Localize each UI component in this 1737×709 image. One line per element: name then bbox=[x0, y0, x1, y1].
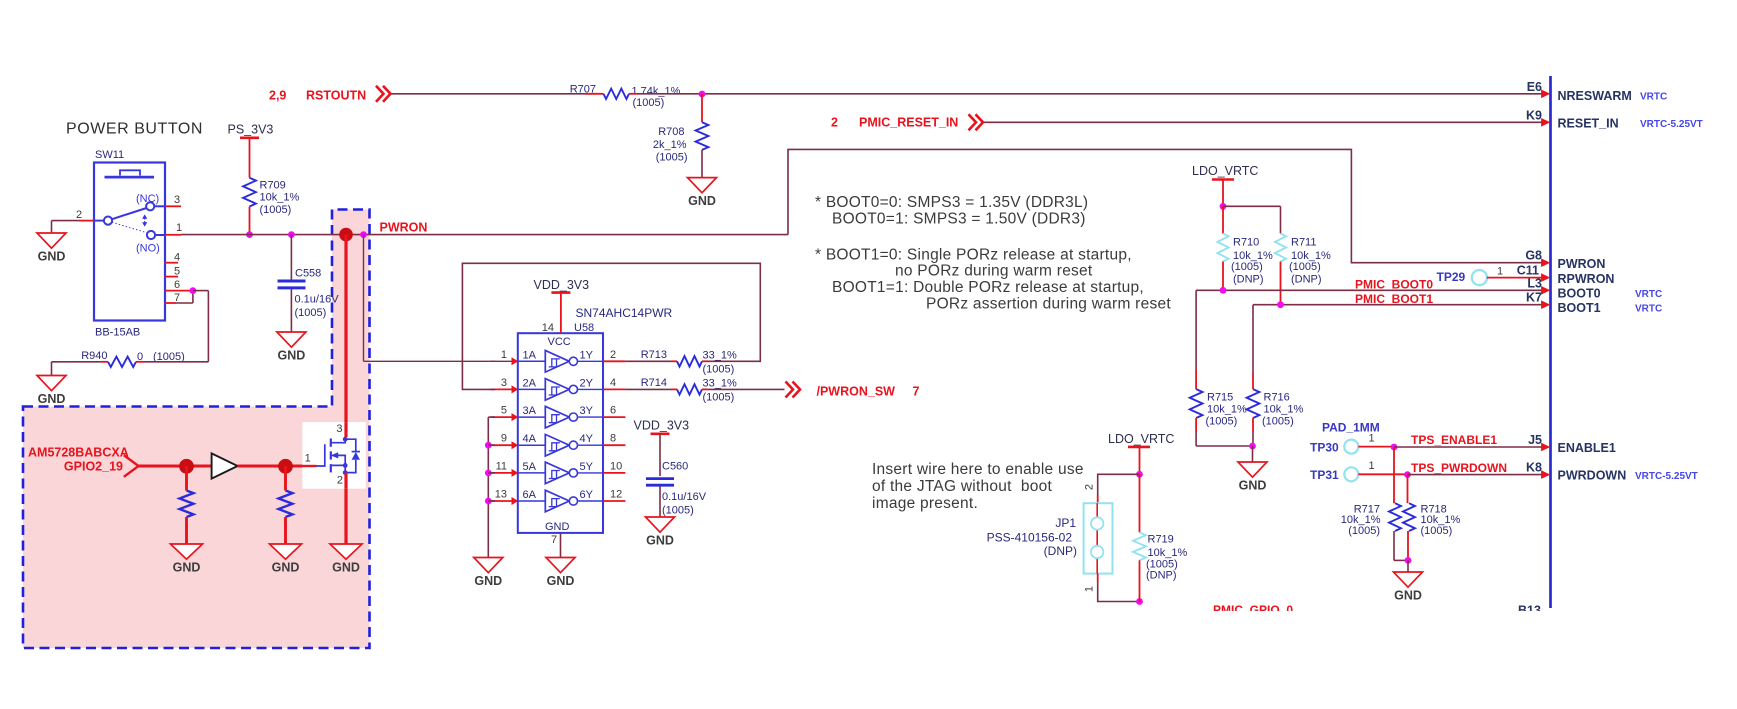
connector boundary line bbox=[1549, 76, 1552, 608]
svg-text:1: 1 bbox=[501, 349, 507, 361]
wire TP30 junction to R717 bbox=[1393, 447, 1395, 503]
resistor R717 bbox=[1341, 503, 1401, 537]
resistor R713 bbox=[641, 349, 737, 376]
svg-text:of the JTAG without boot: of the JTAG without boot bbox=[872, 478, 1052, 495]
highlight region (pink) bbox=[23, 210, 370, 649]
svg-text:VRTC-5.25VT: VRTC-5.25VT bbox=[1635, 471, 1698, 482]
node junction LDO/JP1 top bbox=[1136, 471, 1143, 478]
wire junction to R708 bbox=[701, 94, 703, 122]
svg-text:GND: GND bbox=[1239, 479, 1267, 493]
wire R718 to junction bbox=[1407, 531, 1409, 560]
node pin E6 NRESWARM bbox=[1527, 80, 1668, 103]
svg-text:R711: R711 bbox=[1291, 237, 1316, 249]
wire GPIO2_19 bbox=[139, 465, 213, 468]
ground below R715/R716 bbox=[1238, 462, 1267, 493]
svg-text:4: 4 bbox=[174, 252, 180, 264]
svg-text:1Y: 1Y bbox=[580, 349, 594, 361]
node junction LDO_VRTC bbox=[1220, 203, 1227, 210]
svg-text:33_1%: 33_1% bbox=[703, 378, 737, 390]
node junction R707/R708 bbox=[699, 91, 706, 98]
svg-text:1A: 1A bbox=[523, 349, 537, 361]
wire PWRON horizontal bbox=[181, 234, 788, 236]
wire PS_3V3 to R709 bbox=[249, 138, 251, 178]
svg-text:R715: R715 bbox=[1207, 392, 1233, 404]
svg-text:JP1: JP1 bbox=[1055, 516, 1076, 530]
svg-text:RPWRON: RPWRON bbox=[1558, 272, 1615, 286]
connector JP1 bbox=[987, 484, 1113, 592]
svg-text:GND: GND bbox=[38, 392, 66, 406]
svg-text:L3: L3 bbox=[1527, 276, 1542, 290]
power VDD_3V3 at U58 bbox=[534, 278, 590, 293]
svg-text:6Y: 6Y bbox=[580, 489, 594, 501]
wire PMIC_BOOT1 bbox=[1253, 304, 1542, 306]
wire PMIC_RESET_IN to RESET_IN bbox=[984, 121, 1542, 123]
U58 right pin stubs bbox=[603, 349, 625, 501]
svg-text:GND: GND bbox=[278, 349, 306, 363]
wire BOOT1 down to R716 bbox=[1252, 305, 1254, 389]
svg-text:U58: U58 bbox=[574, 322, 594, 334]
svg-text:GND: GND bbox=[38, 250, 66, 264]
svg-text:LDO_VRTC: LDO_VRTC bbox=[1192, 164, 1258, 178]
svg-text:11: 11 bbox=[496, 460, 507, 472]
svg-text:GND: GND bbox=[1394, 589, 1422, 603]
wire SW11 pin1 stub bbox=[165, 234, 181, 236]
wire junction to ground bbox=[1407, 560, 1409, 572]
svg-text:(NO): (NO) bbox=[136, 243, 160, 255]
svg-text:1: 1 bbox=[176, 222, 182, 234]
node PAD_1MM label bbox=[1322, 421, 1380, 435]
svg-text:TP30: TP30 bbox=[1310, 440, 1339, 454]
wire R715 to junction bbox=[1196, 418, 1252, 446]
svg-text:(1005): (1005) bbox=[1206, 416, 1238, 428]
wire R713 feedback loop bbox=[462, 263, 760, 389]
wire R717 to junction bbox=[1394, 531, 1408, 560]
svg-text:8: 8 bbox=[610, 433, 616, 445]
svg-text:(1005): (1005) bbox=[662, 505, 694, 517]
note insert wire bbox=[872, 461, 1084, 512]
wire SW11 pin4 stub bbox=[165, 262, 178, 264]
svg-text:4: 4 bbox=[610, 377, 616, 389]
ground below U58 pin7 bbox=[546, 558, 575, 589]
wire LDO_VRTC stub lower bbox=[1139, 447, 1141, 474]
svg-text:* BOOT0=0: SMPS3 = 1.35V (DDR3: * BOOT0=0: SMPS3 = 1.35V (DDR3L) bbox=[815, 194, 1088, 211]
svg-text:Insert wire here to enable use: Insert wire here to enable use bbox=[872, 461, 1084, 478]
svg-text:K8: K8 bbox=[1526, 461, 1542, 475]
svg-text:TPS_PWRDOWN: TPS_PWRDOWN bbox=[1411, 461, 1507, 475]
wire TPS_PWRDOWN bbox=[1408, 461, 1542, 475]
wire PWRON to C558 bbox=[290, 235, 292, 280]
wire BOOT0 down to R715 bbox=[1195, 290, 1197, 389]
svg-text:VRTC-5.25VT: VRTC-5.25VT bbox=[1640, 119, 1703, 130]
node /PWRON_SW off-page bbox=[786, 382, 920, 399]
resistor pulldown 2 bbox=[279, 491, 293, 518]
svg-text:E6: E6 bbox=[1527, 80, 1542, 94]
node big junction PWRON bbox=[339, 228, 353, 242]
svg-text:7: 7 bbox=[551, 534, 557, 546]
node junction 1A branch bbox=[360, 231, 367, 238]
wire R719 bottom bbox=[1139, 560, 1141, 601]
svg-text:GND: GND bbox=[173, 561, 201, 575]
svg-text:NRESWARM: NRESWARM bbox=[1558, 89, 1632, 103]
svg-text:14: 14 bbox=[542, 322, 554, 334]
resistor R708 bbox=[653, 122, 709, 163]
svg-text:10k_1%: 10k_1% bbox=[1207, 404, 1247, 416]
svg-text:1: 1 bbox=[305, 453, 311, 465]
wire C560 to ground bbox=[659, 486, 661, 517]
resistor R715 bbox=[1190, 389, 1247, 427]
wire SW11 pin7 stub bbox=[165, 291, 193, 303]
wire pin7 to ground bbox=[560, 533, 562, 558]
svg-text:3A: 3A bbox=[523, 405, 537, 417]
node junction R715/R716 gnd bbox=[1249, 443, 1256, 450]
svg-text:image present.: image present. bbox=[872, 495, 978, 512]
wire PWRON route to G8 bbox=[788, 149, 1542, 262]
svg-text:G8: G8 bbox=[1525, 249, 1542, 263]
resistor R711 (DNP) bbox=[1275, 234, 1331, 286]
svg-text:GND: GND bbox=[646, 534, 674, 548]
ground below R940 left bbox=[37, 376, 66, 407]
svg-text:12: 12 bbox=[610, 489, 622, 501]
svg-text:PMIC_RESET_IN: PMIC_RESET_IN bbox=[859, 116, 958, 130]
svg-text:1: 1 bbox=[1084, 586, 1096, 592]
wire SW11 pin5 stub bbox=[165, 276, 178, 278]
resistor pulldown 1 bbox=[180, 491, 194, 518]
svg-text:/PWRON_SW: /PWRON_SW bbox=[817, 385, 896, 399]
svg-text:SN74AHC14PWR: SN74AHC14PWR bbox=[576, 306, 673, 320]
svg-text:no PORz during warm reset: no PORz during warm reset bbox=[895, 263, 1093, 280]
svg-text:PWRON: PWRON bbox=[1558, 257, 1606, 271]
svg-text:SW11: SW11 bbox=[95, 149, 124, 161]
svg-text:1: 1 bbox=[1369, 433, 1375, 445]
resistor R716 bbox=[1247, 389, 1304, 427]
node pin K7 BOOT1 bbox=[1526, 291, 1662, 315]
svg-text:3Y: 3Y bbox=[580, 405, 594, 417]
wire pin2 to ground bbox=[52, 221, 80, 233]
node pin K8 PWRDOWN bbox=[1526, 461, 1698, 483]
svg-text:PWRDOWN: PWRDOWN bbox=[1558, 469, 1627, 483]
wire R714 to off-page bbox=[702, 388, 785, 390]
svg-text:(DNP): (DNP) bbox=[1044, 544, 1077, 558]
svg-text:1: 1 bbox=[1497, 266, 1503, 278]
svg-text:33_1%: 33_1% bbox=[703, 350, 737, 362]
wire to R710 bbox=[1222, 206, 1224, 233]
wire PWRON branch to 1A bbox=[364, 235, 496, 362]
svg-text:(1005): (1005) bbox=[1262, 416, 1294, 428]
node pin K9 RESET_IN bbox=[1526, 108, 1703, 130]
svg-text:RSTOUTN: RSTOUTN bbox=[306, 89, 366, 103]
node RSTOUTN off-page ref bbox=[269, 86, 391, 103]
node PMIC_RESET_IN off-page bbox=[831, 114, 983, 130]
svg-text:(1005): (1005) bbox=[703, 364, 735, 376]
resistor R719 (DNP) bbox=[1133, 532, 1187, 581]
svg-text:(1005): (1005) bbox=[260, 204, 292, 216]
wire R716 to junction bbox=[1252, 418, 1254, 446]
power PS_3V3 bbox=[228, 123, 274, 138]
svg-text:9: 9 bbox=[501, 433, 507, 445]
node junction R710/BOOT0 bbox=[1220, 287, 1227, 294]
svg-text:13: 13 bbox=[495, 489, 507, 501]
wire pulldown 2 gnd bbox=[284, 517, 287, 544]
node pin G8 PWRON bbox=[1525, 249, 1605, 271]
svg-text:PWRON: PWRON bbox=[380, 221, 428, 235]
capacitor C558 bbox=[278, 268, 340, 320]
ground below R708 bbox=[688, 178, 717, 209]
svg-text:VRTC: VRTC bbox=[1635, 304, 1662, 315]
svg-text:BOOT0=1: SMPS3 = 1.50V (DDR3): BOOT0=1: SMPS3 = 1.50V (DDR3) bbox=[832, 211, 1086, 228]
ground pulldown 1 bbox=[171, 544, 203, 575]
wire VDD_3V3 to C560 bbox=[659, 434, 661, 476]
node junction R717/R718 gnd bbox=[1405, 557, 1412, 564]
wire 1Y to R713 bbox=[625, 360, 677, 362]
buffer gate bbox=[212, 453, 238, 478]
resistor R707 bbox=[570, 84, 681, 110]
U58 left pin stubs bbox=[491, 349, 519, 505]
svg-text:0.1u/16V: 0.1u/16V bbox=[295, 294, 340, 306]
svg-text:7: 7 bbox=[174, 292, 180, 304]
power VDD_3V3 at C560 bbox=[634, 419, 690, 434]
wire R719 top bbox=[1139, 474, 1141, 532]
wire TP31 junction to R718 bbox=[1407, 475, 1409, 504]
testpoint TP30 bbox=[1310, 440, 1358, 455]
svg-text:LDO_VRTC: LDO_VRTC bbox=[1108, 432, 1174, 446]
svg-text:(1005): (1005) bbox=[295, 307, 327, 319]
svg-text:VDD_3V3: VDD_3V3 bbox=[534, 278, 590, 292]
svg-text:1: 1 bbox=[1369, 460, 1375, 472]
svg-text:J5: J5 bbox=[1528, 433, 1542, 447]
wire C558 to ground bbox=[290, 289, 292, 332]
svg-text:4Y: 4Y bbox=[580, 433, 594, 445]
svg-text:K9: K9 bbox=[1526, 108, 1542, 122]
svg-text:(DNP): (DNP) bbox=[1233, 274, 1264, 286]
svg-text:2,9: 2,9 bbox=[269, 89, 286, 103]
svg-text:BOOT1: BOOT1 bbox=[1558, 301, 1601, 315]
node junction pin11 bbox=[485, 470, 492, 477]
wire R707 to NRESWARM bbox=[629, 93, 1542, 95]
svg-text:C560: C560 bbox=[662, 461, 688, 473]
wire pulldown 1 bbox=[185, 466, 188, 491]
svg-text:R719: R719 bbox=[1148, 534, 1174, 546]
wire R940 left to ground bbox=[52, 362, 109, 376]
svg-text:5Y: 5Y bbox=[580, 461, 594, 473]
svg-text:(1005): (1005) bbox=[656, 152, 688, 164]
ground below C560 bbox=[646, 517, 675, 548]
svg-text:0.1u/16V: 0.1u/16V bbox=[662, 491, 707, 503]
svg-text:1.74k_1%: 1.74k_1% bbox=[632, 86, 681, 98]
ground below R717/R718 bbox=[1394, 572, 1423, 603]
svg-text:TP29: TP29 bbox=[1437, 270, 1466, 284]
svg-text:* BOOT1=0: Single PORz release: * BOOT1=0: Single PORz release at startu… bbox=[815, 247, 1132, 264]
wire TP29 to RPWRON bbox=[1487, 266, 1542, 278]
svg-text:GND: GND bbox=[272, 561, 300, 575]
svg-text:3: 3 bbox=[174, 194, 180, 206]
svg-text:TPS_ENABLE1: TPS_ENABLE1 bbox=[1411, 433, 1497, 447]
wire R708 to ground bbox=[701, 150, 703, 178]
svg-text:BB-15AB: BB-15AB bbox=[95, 327, 140, 339]
resistor R710 (DNP) bbox=[1217, 234, 1273, 286]
node junction GPIO 1 bbox=[179, 459, 194, 474]
svg-text:(1005): (1005) bbox=[703, 392, 735, 404]
wire SW11 pin3 stub bbox=[165, 205, 181, 207]
svg-text:2k_1%: 2k_1% bbox=[653, 139, 687, 151]
wire RSTOUTN to R707 bbox=[392, 93, 604, 95]
svg-text:PMIC_BOOT0: PMIC_BOOT0 bbox=[1355, 278, 1433, 292]
svg-text:2: 2 bbox=[831, 116, 838, 130]
wire R710 to BOOT0 net bbox=[1222, 262, 1224, 291]
capacitor C560 bbox=[646, 461, 707, 517]
node junction R709/PWRON bbox=[246, 231, 253, 238]
wire TP30 to junction bbox=[1358, 433, 1394, 447]
wire pulldown 2 bbox=[284, 466, 287, 491]
node pin C11 RPWRON bbox=[1517, 264, 1615, 286]
svg-text:ENABLE1: ENABLE1 bbox=[1558, 441, 1616, 455]
power LDO_VRTC lower bbox=[1108, 432, 1174, 447]
svg-text:6A: 6A bbox=[523, 489, 537, 501]
svg-text:3: 3 bbox=[336, 423, 342, 435]
wire 2Y to R714 bbox=[625, 388, 677, 390]
svg-text:TP31: TP31 bbox=[1310, 468, 1339, 482]
svg-text:C558: C558 bbox=[295, 268, 321, 280]
wire jog to R711 bbox=[1223, 206, 1281, 233]
svg-text:R707: R707 bbox=[570, 84, 596, 96]
wire junction to R940 bbox=[193, 291, 209, 362]
svg-text:R940: R940 bbox=[81, 350, 107, 362]
svg-text:2: 2 bbox=[76, 209, 82, 221]
wire pulldown 1 gnd bbox=[185, 517, 188, 544]
node PMIC_BOOT1 label bbox=[1355, 292, 1433, 306]
resistor R709 bbox=[243, 178, 299, 216]
node junction pin13 bbox=[485, 498, 492, 505]
svg-text:PS_3V3: PS_3V3 bbox=[228, 123, 274, 137]
transistor Q1 (power MOSFET) bbox=[302, 422, 365, 489]
wire MOSFET source to gnd bbox=[344, 489, 347, 544]
resistor R714 bbox=[641, 377, 737, 403]
wire SW11 pin6 stub bbox=[165, 290, 193, 292]
resistor R718 bbox=[1403, 503, 1460, 537]
svg-text:RESET_IN: RESET_IN bbox=[1558, 117, 1619, 131]
svg-text:(1005): (1005) bbox=[1231, 261, 1263, 273]
svg-text:VCC: VCC bbox=[548, 336, 571, 348]
note BOOT0/BOOT1 explanation bbox=[815, 194, 1171, 313]
svg-text:(1005): (1005) bbox=[633, 97, 665, 109]
svg-text:R716: R716 bbox=[1264, 392, 1290, 404]
svg-text:R708: R708 bbox=[658, 126, 684, 138]
wire buffer out bbox=[238, 465, 317, 468]
svg-text:GND: GND bbox=[688, 194, 716, 208]
svg-text:VDD_3V3: VDD_3V3 bbox=[634, 419, 690, 433]
svg-text:R710: R710 bbox=[1233, 237, 1259, 249]
svg-text:(NC): (NC) bbox=[136, 193, 159, 205]
wire R709 to PWRON bbox=[249, 207, 251, 235]
svg-text:AM5728BABCXA: AM5728BABCXA bbox=[28, 446, 129, 460]
wire input chain to ground bbox=[488, 417, 495, 557]
svg-text:GND: GND bbox=[545, 521, 570, 533]
svg-text:GND: GND bbox=[332, 561, 360, 575]
node junction GPIO 2 bbox=[278, 459, 293, 474]
node junction JP1 bottom bbox=[1136, 598, 1143, 605]
ground at SW11 pin2 bbox=[37, 233, 66, 264]
wire SW11 pin2 stub bbox=[79, 220, 94, 222]
svg-text:GND: GND bbox=[474, 574, 502, 588]
svg-text:5: 5 bbox=[174, 265, 180, 277]
node PWRON label bbox=[380, 221, 428, 235]
resistor R940 bbox=[81, 350, 185, 367]
op-amp U58 SN74AHC14PWR body bbox=[518, 306, 673, 546]
svg-text:2: 2 bbox=[610, 349, 616, 361]
node pin J5 ENABLE1 bbox=[1528, 433, 1616, 455]
node junction C558/PWRON bbox=[288, 231, 295, 238]
node junction TPS_ENABLE1 bbox=[1391, 444, 1398, 451]
wire JP1 pin2 bbox=[1098, 474, 1140, 503]
svg-text:2Y: 2Y bbox=[580, 377, 594, 389]
svg-text:POWER BUTTON: POWER BUTTON bbox=[66, 121, 203, 138]
node PMIC_GPIO_0 label (cut) bbox=[1213, 603, 1541, 618]
svg-text:4A: 4A bbox=[523, 433, 537, 445]
ground below input chain bbox=[474, 558, 503, 589]
testpoint TP31 bbox=[1310, 467, 1358, 482]
power LDO_VRTC upper bbox=[1192, 164, 1258, 180]
svg-text:R714: R714 bbox=[641, 377, 667, 389]
wire PMIC_BOOT0 bbox=[1196, 289, 1541, 291]
svg-text:VRTC: VRTC bbox=[1635, 289, 1662, 300]
node junction pin9 bbox=[485, 442, 492, 449]
wire R711 to BOOT1 net bbox=[1280, 262, 1282, 305]
svg-text:10k_1%: 10k_1% bbox=[1148, 547, 1188, 559]
node GPIO2_19 port bbox=[64, 455, 139, 477]
node junction R711/BOOT1 bbox=[1277, 301, 1284, 308]
wire R940 right bbox=[136, 361, 208, 363]
svg-text:PSS-410156-02: PSS-410156-02 bbox=[987, 531, 1073, 545]
wire PWRON to MOSFET drain bbox=[344, 235, 347, 437]
wire pin9 stub bbox=[488, 444, 495, 446]
wire LDO_VRTC stub bbox=[1222, 180, 1224, 207]
node PMIC_BOOT0 label bbox=[1355, 278, 1433, 292]
svg-text:GPIO2_19: GPIO2_19 bbox=[64, 460, 123, 474]
ground below MOSFET bbox=[330, 544, 362, 575]
svg-text:PMIC_BOOT1: PMIC_BOOT1 bbox=[1355, 292, 1433, 306]
wire JP1 pin1 bbox=[1098, 574, 1140, 602]
svg-text:6: 6 bbox=[174, 279, 180, 291]
svg-text:(1005): (1005) bbox=[1289, 261, 1321, 273]
svg-text:K7: K7 bbox=[1526, 291, 1542, 305]
svg-text:(DNP): (DNP) bbox=[1291, 274, 1322, 286]
testpoint TP29 bbox=[1437, 270, 1488, 285]
svg-text:R709: R709 bbox=[260, 180, 286, 192]
node junction TPS_PWRDOWN bbox=[1404, 471, 1411, 478]
svg-text:2A: 2A bbox=[523, 377, 537, 389]
svg-text:5A: 5A bbox=[523, 461, 537, 473]
svg-text:(1005): (1005) bbox=[1421, 525, 1453, 537]
svg-text:(DNP): (DNP) bbox=[1146, 570, 1177, 582]
wire TP31 to junction bbox=[1358, 460, 1407, 474]
node AM5728BABCXA label bbox=[28, 446, 129, 460]
svg-text:BOOT0: BOOT0 bbox=[1558, 287, 1601, 301]
wire pin13 stub bbox=[488, 500, 495, 502]
wire TPS_ENABLE1 bbox=[1394, 433, 1542, 447]
svg-text:(1005): (1005) bbox=[1348, 525, 1380, 537]
wire VDD_3V3 to pin 14 bbox=[560, 293, 562, 334]
svg-text:6: 6 bbox=[610, 405, 616, 417]
ground below C558 bbox=[277, 332, 306, 363]
wire pin11 stub bbox=[488, 472, 495, 474]
switch SW11 bbox=[76, 149, 182, 339]
node pin L3 BOOT0 bbox=[1527, 276, 1662, 300]
svg-text:PORz assertion during warm res: PORz assertion during warm reset bbox=[926, 296, 1171, 313]
svg-text:R713: R713 bbox=[641, 349, 667, 361]
svg-text:GND: GND bbox=[547, 574, 575, 588]
ground pulldown 2 bbox=[270, 544, 302, 575]
svg-text:10k_1%: 10k_1% bbox=[1264, 404, 1304, 416]
svg-text:7: 7 bbox=[913, 385, 920, 399]
